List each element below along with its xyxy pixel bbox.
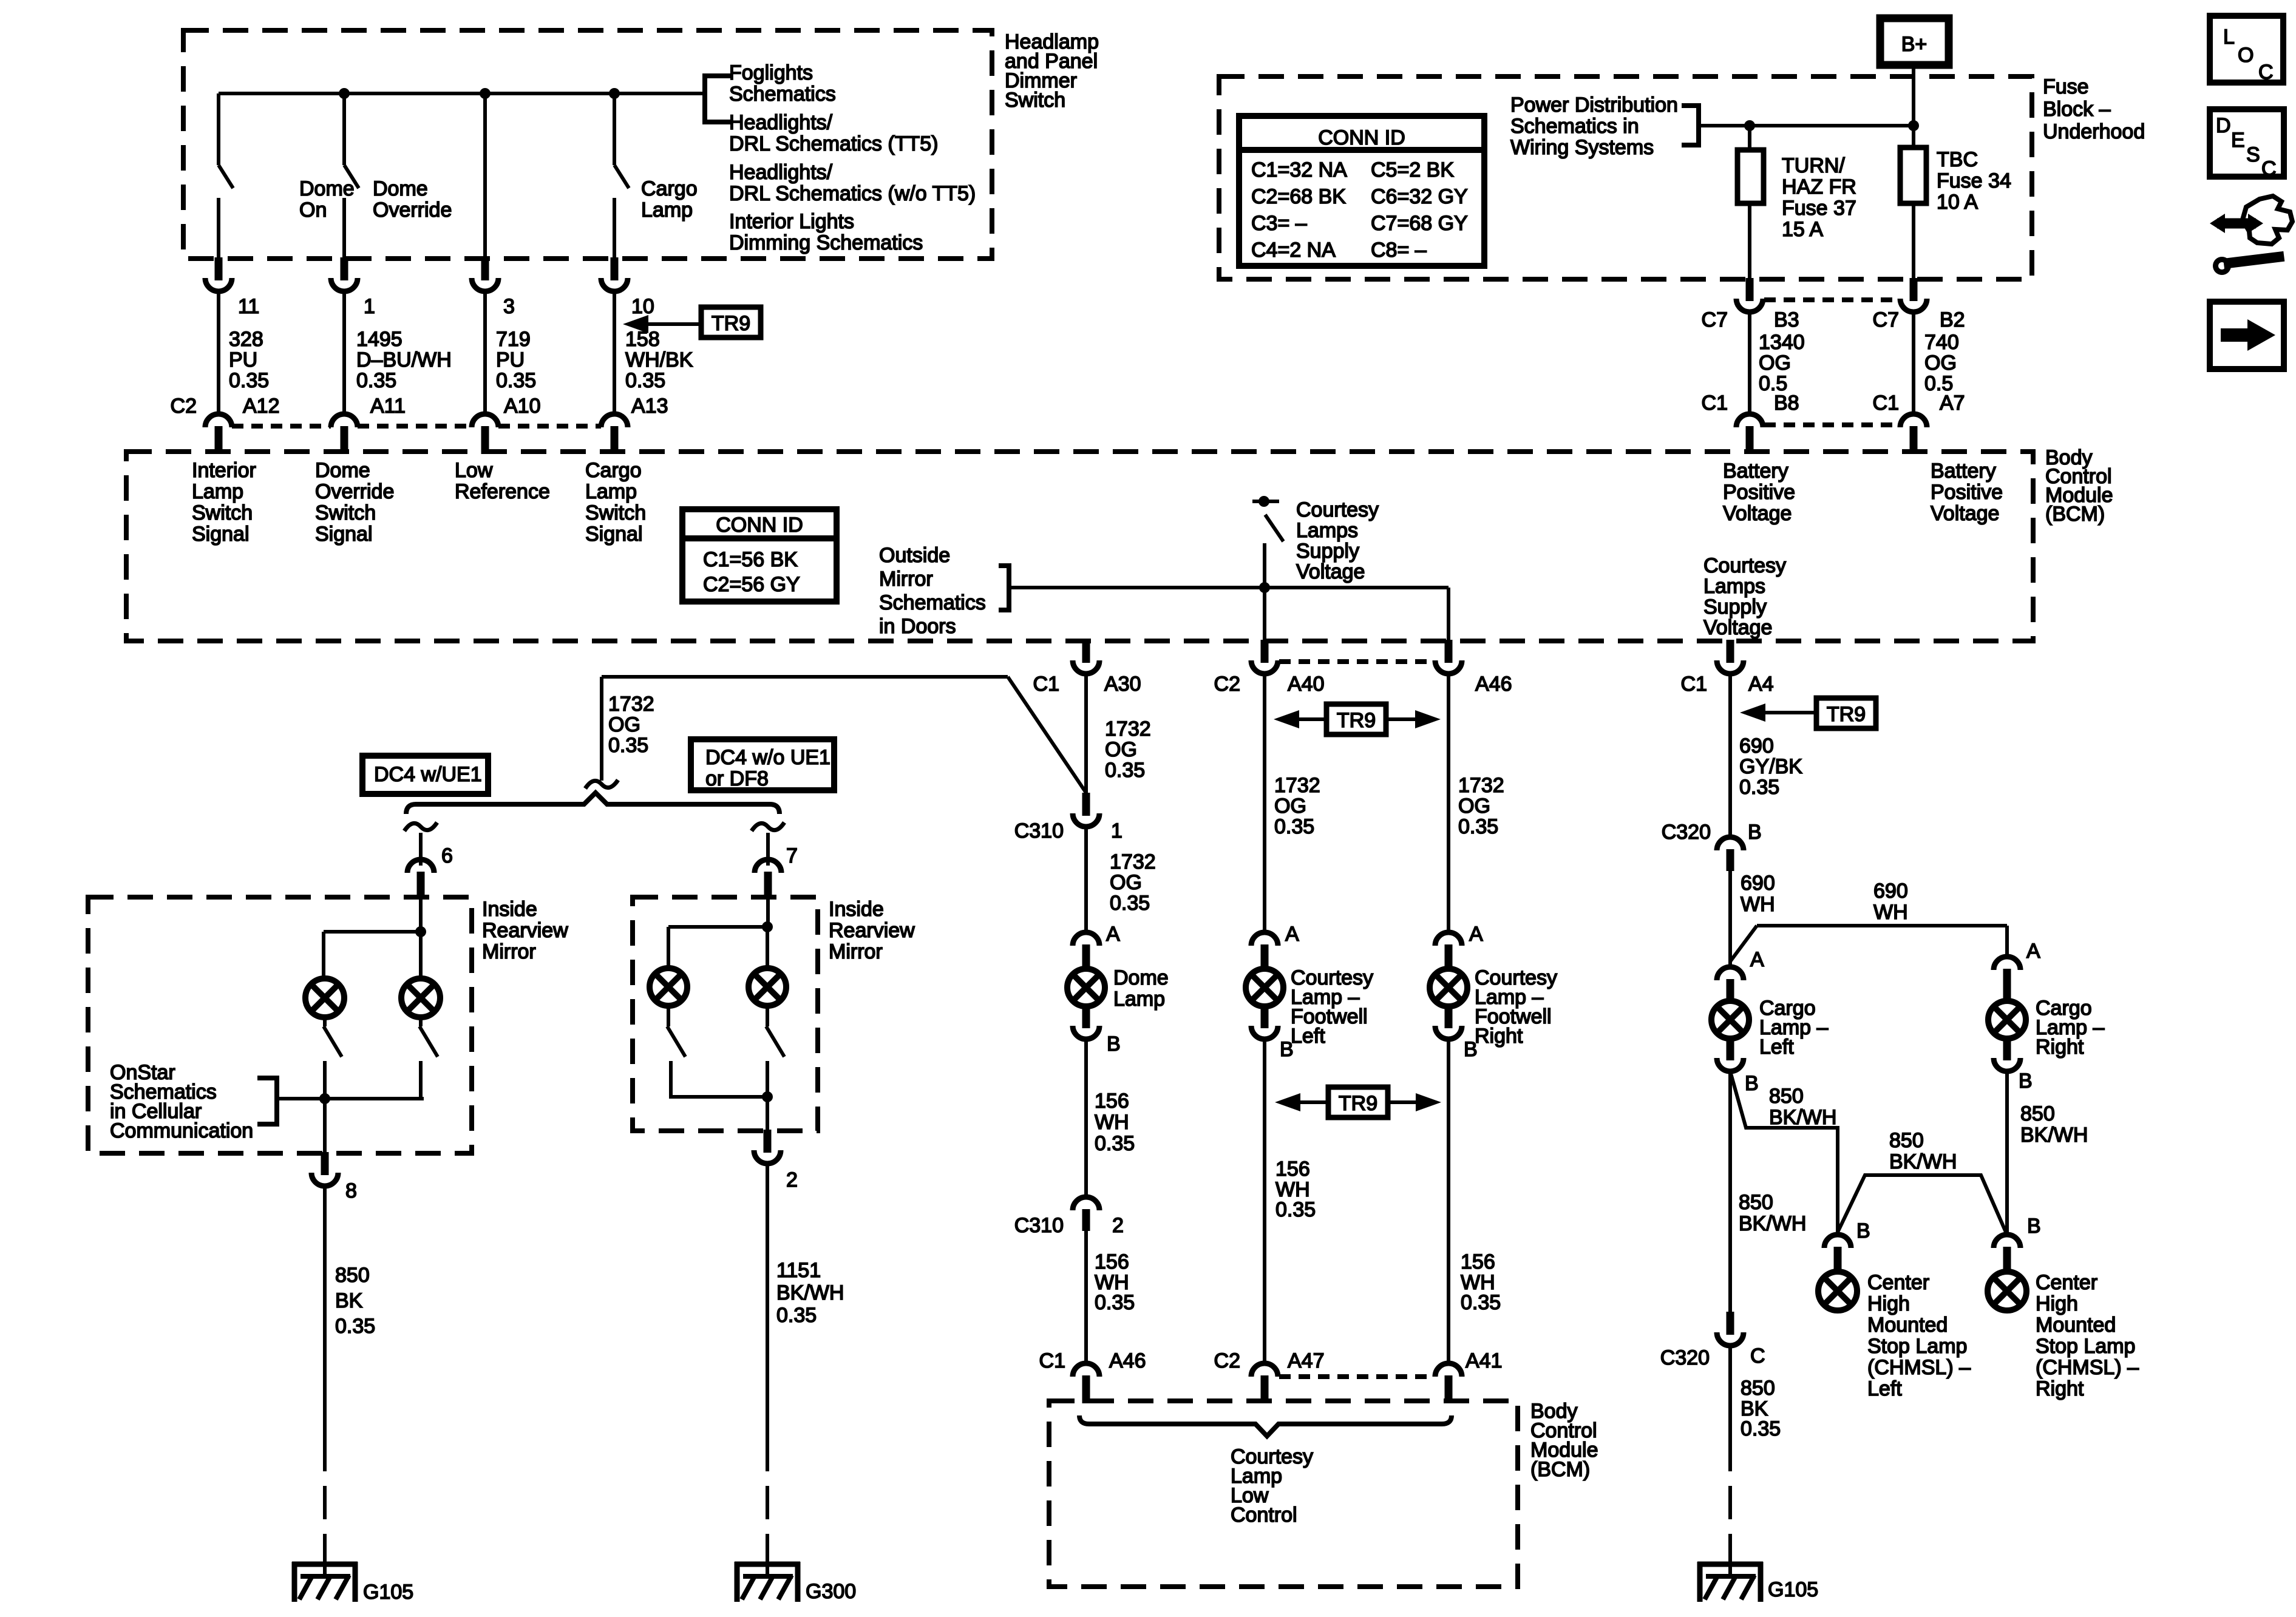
connector B out of dome lamp <box>1082 1006 1090 1028</box>
svg-text:Communication: Communication <box>110 1119 253 1142</box>
svg-text:C2: C2 <box>1214 1349 1240 1372</box>
junction dot mirror2 bottom <box>762 1091 773 1102</box>
wire mirror1 feed <box>419 900 423 932</box>
connector C1 B8 into BCM <box>1736 414 1763 427</box>
svg-text:A: A <box>1106 923 1120 946</box>
wrench pointer icon <box>2243 196 2292 244</box>
connector C2 A47 into BCM bottom <box>1251 1363 1278 1377</box>
svg-text:C6=32 GY: C6=32 GY <box>1371 185 1468 208</box>
svg-text:0.35: 0.35 <box>1461 1291 1501 1314</box>
svg-text:0.35: 0.35 <box>776 1304 817 1327</box>
dome lamp <box>1067 969 1105 1006</box>
svg-text:1495: 1495 <box>356 328 402 351</box>
connector cavity A10 into BCM <box>472 414 498 427</box>
svg-text:D–BU/WH: D–BU/WH <box>356 348 452 371</box>
svg-text:Right: Right <box>2036 1036 2084 1059</box>
next arrow box <box>2210 302 2284 369</box>
svg-text:Dome: Dome <box>373 177 428 200</box>
wire 690 WH branch down to cargo right <box>2005 926 2009 957</box>
svg-text:Lamp: Lamp <box>192 480 243 503</box>
svg-text:690: 690 <box>1873 880 1908 903</box>
svg-text:S: S <box>2246 143 2260 166</box>
svg-text:0.35: 0.35 <box>356 369 396 392</box>
wire courtesy lamps supply bus in BCM <box>1009 586 1449 589</box>
svg-text:156: 156 <box>1275 1158 1310 1181</box>
svg-text:G105: G105 <box>363 1581 413 1604</box>
svg-text:Rearview: Rearview <box>829 919 915 942</box>
svg-text:850: 850 <box>335 1264 370 1287</box>
connector B out of courtesy lamp right <box>1445 1006 1453 1028</box>
junction dot bus-cargo-lamp <box>609 88 620 99</box>
svg-text:156: 156 <box>1461 1250 1495 1273</box>
svg-text:C1=56 BK: C1=56 BK <box>703 548 798 571</box>
svg-text:0.35: 0.35 <box>1095 1132 1135 1155</box>
wire tbc fuse to C7 B2 <box>1912 203 1915 280</box>
svg-text:690: 690 <box>1741 872 1775 895</box>
svg-text:Supply: Supply <box>1703 595 1767 619</box>
svg-text:OG: OG <box>1458 795 1490 818</box>
wire 690 WH branch horizontal <box>1757 924 2007 927</box>
wire turn fuse to C7 B3 <box>1748 203 1751 280</box>
wire 328 PU from pin 11 to A12 <box>217 291 220 414</box>
svg-text:Fuse 37: Fuse 37 <box>1782 197 1856 220</box>
svg-text:High: High <box>2036 1292 2078 1315</box>
wire 740 OG from B2 to A7 <box>1912 312 1915 414</box>
svg-text:B: B <box>2027 1215 2041 1238</box>
svg-text:Battery: Battery <box>1931 459 1996 483</box>
svg-text:Fuse 34: Fuse 34 <box>1937 169 2011 192</box>
cargo lamp left <box>1711 1001 1749 1039</box>
svg-text:Cargo: Cargo <box>641 177 698 200</box>
svg-text:OG: OG <box>1110 871 1142 894</box>
svg-text:Headlights/: Headlights/ <box>729 161 833 184</box>
svg-text:1732: 1732 <box>1110 850 1156 873</box>
break symbol above connector 6 <box>404 822 437 831</box>
svg-text:A46: A46 <box>1109 1349 1146 1372</box>
svg-text:C5=2 BK: C5=2 BK <box>1371 158 1454 181</box>
connector C320 C <box>1727 1312 1734 1335</box>
ground G105 left <box>292 1562 358 1567</box>
svg-text:0.35: 0.35 <box>1095 1291 1135 1314</box>
junction dot onstar bus <box>319 1093 330 1104</box>
svg-text:C2=68 BK: C2=68 BK <box>1251 185 1346 208</box>
junction dot courtesy supply bus <box>1259 582 1270 593</box>
wire 156 WH courtesy left down <box>1263 1039 1266 1364</box>
LOC info box <box>2210 16 2283 83</box>
svg-text:TR9: TR9 <box>1827 703 1866 726</box>
wire 850 BK dashed to G105 <box>323 1438 327 1561</box>
mirror1 right lamp <box>401 978 440 1017</box>
center high mounted stop lamp left <box>1818 1272 1857 1310</box>
svg-text:Lamps: Lamps <box>1703 575 1765 598</box>
svg-text:(CHMSL) –: (CHMSL) – <box>2036 1356 2139 1379</box>
connector A46 leaving BCM <box>1445 640 1453 663</box>
wire onstar bus <box>277 1097 424 1100</box>
bracket to foglights/headlights schematics <box>705 76 732 122</box>
mirror2 left lamp <box>650 968 687 1006</box>
svg-text:0.35: 0.35 <box>1105 759 1145 782</box>
svg-text:Interior: Interior <box>192 459 256 482</box>
svg-text:Block –: Block – <box>2043 98 2111 121</box>
connector A into cargo lamp right <box>1994 957 2020 970</box>
svg-text:Mirror: Mirror <box>829 940 883 963</box>
svg-text:A: A <box>1285 923 1299 946</box>
svg-text:0.35: 0.35 <box>625 369 665 392</box>
DESC info box <box>2210 109 2284 177</box>
connector A into cargo lamp left <box>1717 967 1744 980</box>
wire 1732 OG from C310 to dome lamp <box>1084 825 1088 932</box>
svg-text:1732: 1732 <box>1458 774 1504 797</box>
svg-text:C1: C1 <box>1039 1349 1065 1372</box>
svg-text:1151: 1151 <box>776 1259 821 1282</box>
connector A into courtesy lamp right <box>1435 932 1462 946</box>
connector pin 10 of dimmer switch <box>611 257 619 280</box>
wire 156 WH from C310-2 to A46 <box>1084 1231 1088 1364</box>
svg-text:C: C <box>2261 157 2277 180</box>
svg-text:Override: Override <box>315 480 394 503</box>
svg-text:WH/BK: WH/BK <box>625 348 693 371</box>
svg-text:or DF8: or DF8 <box>705 767 769 790</box>
ground G300 <box>735 1562 800 1567</box>
wire from power distribution bracket to B+ feed <box>1699 124 1914 127</box>
svg-text:C4=2 NA: C4=2 NA <box>1251 239 1336 262</box>
connector B out of courtesy lamp left <box>1261 1006 1269 1028</box>
svg-text:WH: WH <box>1873 901 1908 924</box>
connector C310 pin 2 <box>1073 1197 1099 1210</box>
svg-text:BK/WH: BK/WH <box>1769 1106 1836 1129</box>
svg-text:Dome: Dome <box>299 177 355 200</box>
svg-text:C1: C1 <box>1033 673 1059 696</box>
svg-text:D: D <box>2216 114 2231 137</box>
svg-text:850: 850 <box>2020 1102 2055 1125</box>
svg-text:Mounted: Mounted <box>2036 1314 2116 1337</box>
svg-text:B2: B2 <box>1940 308 1965 331</box>
connector pin 3 of dimmer switch <box>481 257 489 280</box>
TR9 double arrow lower <box>1328 1087 1388 1117</box>
wire mirror2 feed <box>766 900 770 927</box>
connector B out of cargo lamp left <box>1727 1039 1734 1060</box>
wire 719 PU from pin 3 to A10 <box>483 291 487 414</box>
svg-text:Lamp: Lamp <box>641 198 693 222</box>
svg-text:2: 2 <box>1112 1214 1124 1237</box>
svg-text:(CHMSL) –: (CHMSL) – <box>1867 1356 1971 1379</box>
wire 690 WH branch diagonal <box>1730 926 1757 961</box>
svg-text:1: 1 <box>1111 819 1123 842</box>
wire 1151 BK/WH from pin 2 <box>766 1164 769 1438</box>
svg-text:TR9: TR9 <box>1337 709 1376 732</box>
svg-text:11: 11 <box>238 295 259 318</box>
svg-text:DC4 w/UE1: DC4 w/UE1 <box>374 763 482 786</box>
svg-text:A: A <box>2026 940 2040 963</box>
svg-text:Dome: Dome <box>1113 966 1169 989</box>
svg-text:Supply: Supply <box>1296 540 1359 563</box>
svg-text:0.35: 0.35 <box>1739 776 1779 799</box>
svg-text:OG: OG <box>1274 795 1306 818</box>
connector C1 A4 leaving BCM <box>1727 640 1734 663</box>
svg-text:A: A <box>1750 948 1764 971</box>
svg-text:Mirror: Mirror <box>879 568 933 591</box>
wire mirror2 horizontal <box>668 925 767 929</box>
wire mirror1 right drop <box>419 932 423 978</box>
connector pin 8 leaving mirror1 <box>321 1152 329 1175</box>
courtesy lamp footwell left <box>1246 969 1283 1006</box>
svg-text:Rearview: Rearview <box>482 919 568 942</box>
svg-text:328: 328 <box>229 328 263 351</box>
dotted connector line A47-A41 <box>1279 1374 1434 1379</box>
svg-text:850: 850 <box>1739 1191 1773 1214</box>
svg-text:A13: A13 <box>631 395 668 418</box>
svg-text:A41: A41 <box>1466 1349 1503 1372</box>
svg-text:On: On <box>299 198 327 222</box>
svg-text:C320: C320 <box>1662 821 1711 844</box>
svg-text:G300: G300 <box>806 1580 856 1603</box>
svg-text:1732: 1732 <box>1274 774 1320 797</box>
inside rearview mirror box right <box>633 897 818 1131</box>
brace for DC4 wiring options <box>406 793 779 814</box>
wire bus corner down to A46 <box>1447 588 1450 642</box>
svg-text:C310: C310 <box>1014 1214 1064 1237</box>
svg-text:High: High <box>1867 1292 1910 1315</box>
bracket power distribution <box>1682 106 1699 145</box>
svg-text:WH: WH <box>1095 1111 1129 1134</box>
wire 850 BK from C320 C <box>1728 1346 1732 1438</box>
svg-text:OG: OG <box>1105 738 1137 761</box>
svg-text:Switch: Switch <box>315 501 376 524</box>
svg-text:0.35: 0.35 <box>608 734 648 757</box>
svg-text:BK/WH: BK/WH <box>1889 1150 1957 1173</box>
connector pin 11 of dimmer switch <box>215 257 223 280</box>
svg-text:CONN ID: CONN ID <box>716 514 803 537</box>
svg-text:Outside: Outside <box>879 544 950 567</box>
svg-text:156: 156 <box>1095 1250 1129 1273</box>
connector pin 7 inside rearview mirror <box>755 859 781 873</box>
switch courtesy lamps supply voltage in BCM <box>1252 500 1279 503</box>
mirror1 left lamp switch <box>323 1017 327 1026</box>
connector C7 B2 leaving fuse block <box>1910 278 1918 301</box>
svg-text:Courtesy: Courtesy <box>1296 498 1379 521</box>
svg-text:A46: A46 <box>1475 673 1512 696</box>
wire 1732 OG diagonal to C310 <box>1008 677 1086 793</box>
dotted connector line C1 row <box>1764 422 1899 427</box>
svg-text:Interior Lights: Interior Lights <box>729 210 854 233</box>
ground G105 right <box>1697 1562 1763 1567</box>
svg-text:Reference: Reference <box>455 480 550 503</box>
svg-text:Signal: Signal <box>585 523 643 546</box>
dotted connector line C2 A40-A46 <box>1279 659 1434 664</box>
connector B into CHMSL right <box>1994 1235 2020 1248</box>
wire to connector 7 <box>766 833 770 866</box>
wire mirror2 down to pin 2 <box>766 1097 769 1132</box>
svg-text:3: 3 <box>503 295 515 318</box>
svg-text:850: 850 <box>1769 1085 1804 1108</box>
wire 1732 OG left branch down <box>600 677 603 781</box>
svg-text:Left: Left <box>1867 1377 1902 1400</box>
break symbol above connector 7 <box>752 822 784 831</box>
svg-text:A11: A11 <box>370 395 406 418</box>
connector C320 B <box>1717 837 1744 850</box>
TR9 double arrow between A40 and A46 <box>1326 704 1386 734</box>
svg-text:C1=32 NA: C1=32 NA <box>1251 158 1347 181</box>
wire 156 WH from dome lamp to C310-2 <box>1084 1039 1088 1197</box>
svg-text:Schematics in: Schematics in <box>1510 115 1639 138</box>
svg-text:Voltage: Voltage <box>1723 502 1792 525</box>
connector A into dome lamp <box>1073 932 1099 946</box>
svg-text:DRL Schematics (w/o TT5): DRL Schematics (w/o TT5) <box>729 182 976 205</box>
wire 850 BK from pin 8 <box>323 1186 327 1438</box>
svg-text:A: A <box>1469 923 1483 946</box>
fuse TBC Fuse 34 <box>1900 147 1926 203</box>
svg-text:2: 2 <box>786 1168 798 1192</box>
wire 1732 OG from A30 down <box>1084 674 1088 793</box>
svg-text:Positive: Positive <box>1931 481 2003 504</box>
svg-text:C7=68 GY: C7=68 GY <box>1371 212 1468 235</box>
svg-text:GY/BK: GY/BK <box>1739 755 1802 778</box>
svg-text:10 A: 10 A <box>1937 191 1978 214</box>
bracket onstar schematics <box>257 1078 277 1124</box>
svg-text:A40: A40 <box>1288 673 1325 696</box>
svg-text:0.35: 0.35 <box>496 369 536 392</box>
svg-text:O: O <box>2238 44 2254 67</box>
connector pin 2 leaving mirror2 <box>764 1130 772 1153</box>
svg-text:Right: Right <box>1475 1025 1523 1048</box>
svg-text:BK/WH: BK/WH <box>2020 1124 2088 1147</box>
wire 1732 OG from A46 down <box>1447 674 1450 932</box>
svg-text:HAZ FR: HAZ FR <box>1782 175 1856 198</box>
wire 1732 OG left branch horizontal <box>602 675 1008 679</box>
svg-text:C1: C1 <box>1873 392 1899 415</box>
svg-text:Cargo: Cargo <box>585 459 642 482</box>
wire 690 WH into cargo lamp left <box>1728 961 1732 967</box>
svg-text:BK/WH: BK/WH <box>776 1281 844 1304</box>
wire 850 BK/WH bridge between CHMSL <box>1838 1175 2006 1233</box>
wire 850 BK/WH cargo left to C320 C <box>1728 1071 1732 1312</box>
dotted connector line C7 row <box>1764 297 1899 302</box>
svg-text:B: B <box>1745 1072 1759 1095</box>
svg-text:8: 8 <box>345 1179 357 1202</box>
center high mounted stop lamp right <box>1988 1272 2026 1310</box>
svg-text:Power Distribution: Power Distribution <box>1510 93 1678 117</box>
junction dot mirror2 top <box>762 921 773 932</box>
svg-text:C310: C310 <box>1014 819 1064 842</box>
svg-text:A12: A12 <box>243 395 280 418</box>
svg-text:740: 740 <box>1924 331 1959 354</box>
svg-text:Schematics: Schematics <box>729 83 836 106</box>
courtesy lamp footwell right <box>1430 969 1467 1006</box>
svg-text:Mirror: Mirror <box>482 940 536 963</box>
dimmer switch bus wire <box>219 92 705 95</box>
mirror2 left lamp switch <box>667 1006 670 1026</box>
connector A into courtesy lamp left <box>1251 932 1278 946</box>
TR9 arrow at A4 <box>1816 698 1876 728</box>
svg-text:A47: A47 <box>1288 1349 1325 1372</box>
connector C1 A7 into BCM <box>1900 414 1927 427</box>
svg-text:WH: WH <box>1741 893 1775 916</box>
DC4 w/o UE1 or DF8 option box <box>691 739 834 790</box>
wire 1732 OG from A40 down <box>1263 674 1266 932</box>
svg-text:Stop Lamp: Stop Lamp <box>2036 1335 2135 1358</box>
svg-text:C: C <box>2258 61 2274 84</box>
mirror2 right lamp <box>749 968 786 1006</box>
svg-text:TR9: TR9 <box>712 312 750 335</box>
svg-text:719: 719 <box>496 328 531 351</box>
wire 158 WH/BK from pin 10 to A13 <box>613 291 616 414</box>
svg-text:C320: C320 <box>1660 1346 1710 1369</box>
fuse TURN/HAZ FR Fuse 37 <box>1748 126 1751 150</box>
wire mirror1 left drop <box>322 932 325 978</box>
svg-text:Control: Control <box>1231 1503 1297 1527</box>
cargo lamp right <box>1988 1001 2026 1039</box>
svg-text:C7: C7 <box>1702 308 1728 331</box>
svg-text:Left: Left <box>1759 1036 1794 1059</box>
junction dot bus-low-reference <box>480 88 491 99</box>
svg-text:B: B <box>1748 821 1762 844</box>
connector pin 6 inside rearview mirror <box>407 859 434 873</box>
svg-text:B8: B8 <box>1774 392 1799 415</box>
svg-text:0.35: 0.35 <box>1458 815 1498 838</box>
connector B into CHMSL left <box>1824 1235 1851 1248</box>
mirror2 right lamp switch <box>766 1006 769 1026</box>
svg-text:B: B <box>1464 1038 1478 1061</box>
svg-text:OG: OG <box>1759 351 1791 375</box>
svg-text:0.35: 0.35 <box>229 369 269 392</box>
svg-text:TURN/: TURN/ <box>1782 154 1845 177</box>
headlamp and panel dimmer switch box <box>183 30 992 259</box>
svg-text:TR9: TR9 <box>1339 1092 1377 1115</box>
body control module box <box>126 452 2033 641</box>
svg-text:Battery: Battery <box>1723 459 1788 483</box>
svg-text:Voltage: Voltage <box>1703 616 1772 639</box>
svg-text:B: B <box>2019 1070 2033 1093</box>
svg-text:A7: A7 <box>1940 392 1965 415</box>
wire switch down to A40 <box>1263 588 1266 642</box>
svg-text:Schematics: Schematics <box>879 591 986 614</box>
svg-text:Voltage: Voltage <box>1296 560 1365 583</box>
svg-text:Lamp: Lamp <box>585 480 637 503</box>
DC4 w/UE1 option box <box>362 756 488 794</box>
wire 850 BK/WH cargo right down to CHMSL right <box>2005 1071 2009 1235</box>
dotted connector line C2 row <box>232 424 331 429</box>
svg-text:Left: Left <box>1291 1025 1325 1048</box>
bracket outside mirror schematics <box>999 566 1009 610</box>
svg-text:0.35: 0.35 <box>1275 1198 1316 1221</box>
svg-text:BK/WH: BK/WH <box>1739 1212 1806 1235</box>
svg-text:1732: 1732 <box>608 693 654 716</box>
svg-text:C: C <box>1750 1344 1765 1368</box>
wire low reference <box>483 93 487 261</box>
svg-text:Foglights: Foglights <box>729 61 813 84</box>
svg-text:A10: A10 <box>504 395 541 418</box>
svg-text:Center: Center <box>2036 1271 2097 1294</box>
svg-text:Inside: Inside <box>829 898 884 921</box>
svg-text:Switch: Switch <box>585 501 646 524</box>
wire mirror2 left drop <box>667 927 670 969</box>
svg-text:(BCM): (BCM) <box>2045 503 2105 526</box>
svg-text:6: 6 <box>441 844 453 867</box>
svg-text:Lamp: Lamp <box>1113 988 1165 1011</box>
TR9 arrow to cargo lamp switch wire <box>648 322 701 326</box>
svg-text:0.35: 0.35 <box>1741 1417 1781 1440</box>
svg-text:B3: B3 <box>1774 308 1799 331</box>
connector pin 1 of dimmer switch <box>341 257 348 280</box>
wire 1151 dashed to G300 <box>766 1438 769 1561</box>
wire 1495 D-BU/WH from pin 1 to A11 <box>342 291 346 414</box>
svg-text:PU: PU <box>229 348 257 371</box>
CONN ID table of BCM <box>682 509 837 602</box>
connector cavity A12 into BCM <box>205 414 232 427</box>
svg-text:1: 1 <box>364 295 375 318</box>
mirror1 right lamp switch <box>419 1017 423 1026</box>
svg-text:C1: C1 <box>1702 392 1728 415</box>
